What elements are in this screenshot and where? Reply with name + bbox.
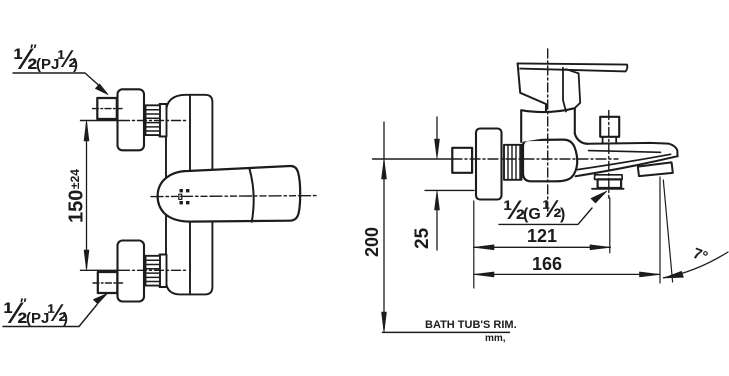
plate face line — [189, 95, 191, 294]
121 dimension line — [474, 246, 611, 248]
top collar — [160, 104, 167, 137]
166 dimension line — [474, 273, 660, 275]
top escutcheon — [118, 89, 145, 150]
svg-text:″: ″ — [30, 41, 37, 57]
25 reference line — [425, 189, 474, 191]
bottom escutcheon — [118, 241, 145, 302]
svg-text:″: ″ — [20, 295, 27, 311]
shower connector stem — [603, 137, 617, 143]
outlet extension line down — [609, 198, 611, 253]
wall-side inlet centerline — [373, 158, 453, 160]
side nut — [452, 148, 472, 173]
spout tip outlet box — [638, 162, 673, 176]
200 dimension — [383, 122, 385, 330]
svg-text:200: 200 — [362, 227, 382, 257]
bottom nut centerline — [93, 282, 123, 284]
spout lower inner line — [578, 154, 671, 169]
svg-text:25: 25 — [412, 227, 433, 249]
bath tub rim line — [383, 331, 510, 333]
svg-text:mm,: mm, — [485, 333, 506, 344]
bottom inlet centerline — [81, 269, 121, 271]
svg-text:): ) — [63, 310, 68, 327]
spout underside — [576, 156, 678, 176]
bottom outlet body — [598, 179, 622, 188]
mounting body plate — [166, 95, 212, 295]
side escutcheon — [476, 129, 502, 200]
L curve into spout — [575, 134, 588, 144]
svg-text:BATH TUB'S RIM.: BATH TUB'S RIM. — [425, 319, 517, 331]
25 upper arrow — [436, 117, 438, 143]
body barrel — [523, 140, 577, 182]
svg-text:(PJ: (PJ — [36, 56, 59, 73]
svg-text:121: 121 — [527, 226, 557, 246]
hot cold dots on handle — [179, 189, 190, 204]
bottom inlet nut — [98, 272, 118, 293]
mixer body capsule with handle — [158, 166, 301, 222]
dome cartridge ring — [521, 108, 575, 142]
spout top edge — [588, 143, 678, 156]
svg-text:): ) — [560, 206, 565, 223]
outlet centerline — [608, 111, 610, 199]
top threads — [146, 105, 161, 135]
spout tip vertical extension — [659, 177, 661, 283]
bottom collar — [160, 255, 167, 288]
25 lower arrow — [436, 206, 438, 250]
spout inner top line — [589, 151, 661, 153]
7 degree arc — [664, 252, 729, 278]
7 degree tilted line — [663, 180, 672, 282]
150 arrow down — [84, 250, 89, 270]
handle hub — [518, 63, 546, 112]
svg-text:½: ½ — [542, 196, 562, 223]
bottom threads — [146, 256, 161, 286]
svg-text:7°: 7° — [691, 245, 710, 266]
handle centerline — [547, 49, 549, 215]
121/166 left extension line — [473, 201, 475, 288]
top inlet centerline — [81, 120, 121, 122]
G half label leader — [499, 208, 592, 224]
svg-text:(PJ: (PJ — [26, 310, 49, 327]
svg-text:(G: (G — [523, 206, 541, 223]
top nut centerline — [93, 108, 123, 110]
svg-text:166: 166 — [532, 254, 562, 274]
handle divider arc — [250, 169, 254, 222]
150 arrow up — [84, 120, 89, 141]
svg-text:): ) — [73, 56, 78, 73]
side threads — [504, 145, 522, 180]
top inlet nut — [97, 98, 117, 119]
bottom outlet base — [592, 188, 624, 190]
shower connector square — [600, 117, 619, 137]
bottom left label leader — [3, 305, 97, 327]
svg-text:150: 150 — [66, 190, 88, 223]
150 dimension line — [86, 123, 88, 268]
capsule centerline — [151, 196, 318, 197]
top left label leader — [13, 73, 99, 86]
svg-text:±24: ±24 — [68, 169, 82, 189]
bottom outlet flange — [595, 175, 623, 180]
side inlet centerline dashed — [452, 158, 618, 160]
lever blade — [518, 63, 628, 71]
